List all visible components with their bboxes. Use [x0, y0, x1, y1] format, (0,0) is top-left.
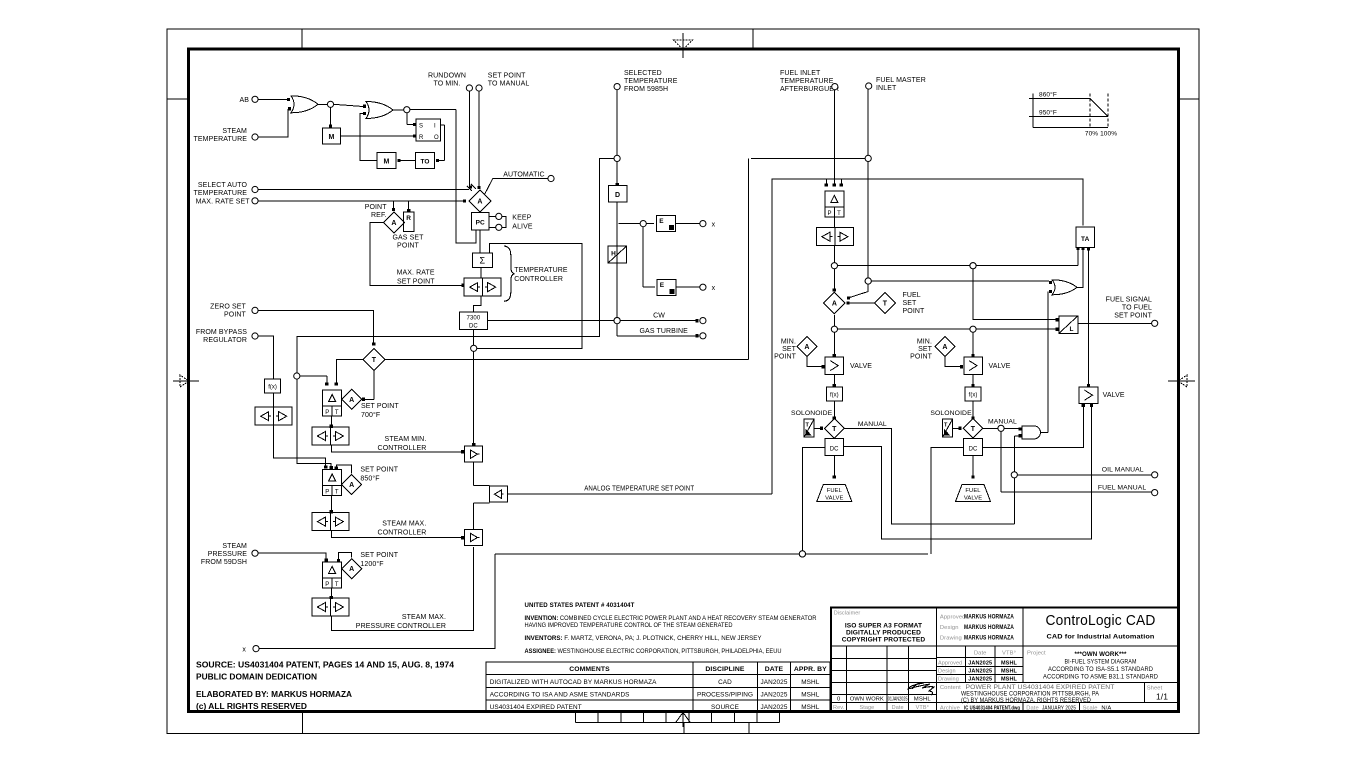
- svg-text:M: M: [384, 159, 390, 166]
- svg-text:MARKUS HORMAZA: MARKUS HORMAZA: [964, 636, 1014, 642]
- svg-text:Stage: Stage: [859, 705, 874, 711]
- svg-text:MSHL: MSHL: [801, 704, 820, 711]
- svg-text:JAN2025: JAN2025: [968, 661, 992, 667]
- svg-text:D: D: [615, 192, 620, 199]
- svg-text:SELECT AUTO: SELECT AUTO: [198, 182, 248, 189]
- svg-text:RUNDOWN: RUNDOWN: [428, 73, 466, 80]
- svg-text:SET: SET: [782, 346, 797, 353]
- svg-text:FUEL INLET: FUEL INLET: [780, 70, 821, 77]
- svg-text:R: R: [419, 135, 424, 141]
- svg-text:VALVE: VALVE: [989, 363, 1011, 370]
- svg-text:ELABORATED BY: MARKUS HORMAZA: ELABORATED BY: MARKUS HORMAZA: [196, 689, 352, 699]
- svg-text:ACCORDING TO ISA AND ASME STAN: ACCORDING TO ISA AND ASME STANDARDS: [490, 692, 630, 699]
- svg-text:TEMPERATURE: TEMPERATURE: [194, 136, 248, 143]
- svg-text:A: A: [942, 344, 947, 351]
- svg-text:Date: Date: [892, 705, 904, 711]
- svg-text:CONTROLLER: CONTROLLER: [514, 276, 563, 283]
- svg-text:POINT: POINT: [365, 204, 388, 211]
- svg-text:P: P: [325, 410, 329, 416]
- svg-text:POINT: POINT: [774, 354, 797, 361]
- svg-text:CW: CW: [653, 313, 665, 320]
- svg-text:Design: Design: [940, 625, 959, 631]
- svg-text:CAD: CAD: [718, 679, 732, 686]
- svg-text:Approved: Approved: [940, 615, 966, 621]
- svg-text:A: A: [832, 301, 837, 308]
- svg-text:TEMPERATURE: TEMPERATURE: [514, 267, 568, 274]
- svg-text:x: x: [712, 285, 716, 292]
- svg-text:ZERO SET: ZERO SET: [210, 304, 246, 311]
- svg-text:SOLONOIDE: SOLONOIDE: [930, 410, 972, 417]
- svg-text:SET: SET: [903, 300, 918, 307]
- svg-text:AUTOMATIC: AUTOMATIC: [503, 172, 544, 179]
- svg-text:VALVE: VALVE: [1103, 392, 1125, 399]
- svg-text:f(x): f(x): [969, 393, 978, 399]
- svg-text:MSHL: MSHL: [801, 692, 820, 699]
- svg-text:BI-FUEL SYSTEM DIAGRAM: BI-FUEL SYSTEM DIAGRAM: [1065, 659, 1137, 666]
- svg-text:FUEL: FUEL: [827, 488, 843, 494]
- svg-text:A: A: [349, 482, 354, 489]
- svg-text:SET POINT: SET POINT: [397, 279, 435, 286]
- svg-text:T: T: [372, 357, 377, 364]
- svg-text:IC US4031404 PATENT.dwg: IC US4031404 PATENT.dwg: [964, 706, 1020, 712]
- svg-text:DISCIPLINE: DISCIPLINE: [705, 666, 745, 673]
- svg-text:O: O: [434, 135, 439, 141]
- svg-text:REGULATOR: REGULATOR: [203, 337, 247, 344]
- svg-text:A: A: [349, 566, 354, 573]
- svg-text:GAS SET: GAS SET: [392, 235, 424, 242]
- svg-text:AB: AB: [239, 97, 249, 104]
- svg-text:Date: Date: [1026, 706, 1039, 712]
- svg-text:P: P: [827, 211, 831, 217]
- svg-text:H: H: [611, 251, 616, 258]
- svg-text:ISO SUPER A3 FORMAT: ISO SUPER A3 FORMAT: [845, 623, 922, 630]
- svg-text:STEAM MAX.: STEAM MAX.: [382, 521, 426, 528]
- svg-text:P: P: [325, 490, 329, 496]
- svg-text:DC: DC: [469, 324, 478, 330]
- svg-text:T: T: [805, 423, 809, 429]
- svg-text:CONTROLLER: CONTROLLER: [378, 445, 427, 452]
- svg-text:01JAN2025: 01JAN2025: [888, 697, 908, 703]
- svg-text:KEEP: KEEP: [512, 215, 531, 222]
- svg-text:JAN2025: JAN2025: [761, 692, 788, 699]
- svg-text:SOLONOIDE: SOLONOIDE: [791, 410, 833, 417]
- svg-text:GAS TURBINE: GAS TURBINE: [640, 328, 689, 335]
- svg-text:APPR. BY: APPR. BY: [794, 666, 827, 673]
- svg-text:ControLogic CAD: ControLogic CAD: [1046, 612, 1156, 629]
- svg-text:POINT: POINT: [397, 243, 420, 250]
- svg-text:1/1: 1/1: [1156, 692, 1168, 702]
- svg-text:FUEL MASTER: FUEL MASTER: [876, 77, 926, 84]
- svg-text:OWN WORK: OWN WORK: [850, 697, 884, 703]
- svg-text:(c) ALL RIGHTS RESERVED: (c) ALL RIGHTS RESERVED: [196, 701, 307, 711]
- svg-text:PC: PC: [476, 220, 485, 227]
- svg-text:UNITED STATES PATENT # 4031404: UNITED STATES PATENT # 4031404T: [525, 602, 635, 609]
- svg-text:TO: TO: [420, 159, 429, 166]
- svg-text:T: T: [971, 426, 976, 433]
- svg-text:JAN2025: JAN2025: [968, 669, 992, 675]
- svg-text:TEMPERATURE: TEMPERATURE: [624, 78, 678, 85]
- svg-text:MANUAL: MANUAL: [858, 421, 887, 428]
- svg-text:ACCORDING TO ASME B31.1 STAN: ACCORDING TO ASME B31.1 STANDARD: [1043, 674, 1158, 681]
- svg-text:TEMPERATURE: TEMPERATURE: [780, 78, 834, 85]
- svg-text:850°F: 850°F: [360, 475, 379, 483]
- svg-text:Archive: Archive: [940, 706, 960, 712]
- svg-text:ACCORDING TO ISA-S5.1 STANDARD: ACCORDING TO ISA-S5.1 STANDARD: [1048, 666, 1153, 673]
- svg-text:f(x): f(x): [268, 385, 277, 391]
- svg-text:FROM BYPASS: FROM BYPASS: [196, 329, 247, 336]
- svg-text:A: A: [391, 220, 396, 227]
- svg-text:JAN2025: JAN2025: [761, 679, 788, 686]
- svg-text:TA: TA: [1081, 236, 1090, 243]
- svg-text:(C) BY MARKUS HORMAZA, RIGHTS: (C) BY MARKUS HORMAZA, RIGHTS RESERVED: [961, 697, 1091, 704]
- svg-text:POINT: POINT: [224, 312, 247, 319]
- svg-text:Drawing: Drawing: [940, 636, 962, 642]
- svg-text:M: M: [329, 134, 335, 141]
- svg-text:REF.: REF.: [371, 212, 387, 219]
- svg-text:Σ: Σ: [479, 256, 485, 266]
- svg-text:VTB°: VTB°: [916, 705, 929, 711]
- svg-text:FUEL: FUEL: [903, 292, 921, 299]
- svg-text:T: T: [335, 410, 339, 416]
- svg-text:SET POINT: SET POINT: [361, 403, 399, 410]
- svg-text:1200°F: 1200°F: [360, 560, 383, 568]
- svg-text:DC: DC: [830, 447, 839, 453]
- svg-text:FROM 5985H: FROM 5985H: [624, 86, 668, 93]
- svg-text:CONTROLLER: CONTROLLER: [378, 530, 427, 537]
- svg-text:SET POINT: SET POINT: [1114, 313, 1152, 320]
- svg-text:SOURCE: US4031404 PATENT, PAGE: SOURCE: US4031404 PATENT, PAGES 14 AND 1…: [196, 660, 454, 670]
- svg-text:TO MIN.: TO MIN.: [433, 81, 460, 88]
- svg-text:VALVE: VALVE: [825, 496, 843, 502]
- svg-text:L: L: [1069, 326, 1073, 333]
- svg-text:Approved: Approved: [938, 661, 962, 667]
- svg-text:MIN.: MIN.: [781, 339, 796, 346]
- svg-text:VALVE: VALVE: [850, 363, 872, 370]
- svg-text:VTB°: VTB°: [1002, 651, 1016, 657]
- svg-text:ASSIGNEE: WESTINGHOUSE ELECTRI: ASSIGNEE: WESTINGHOUSE ELECTRIC CORPORAT…: [525, 648, 782, 655]
- svg-text:T: T: [883, 301, 888, 308]
- svg-text:SET POINT: SET POINT: [360, 467, 398, 474]
- svg-text:T: T: [944, 423, 948, 429]
- svg-text:SET: SET: [918, 346, 933, 353]
- svg-text:700°F: 700°F: [361, 411, 380, 419]
- svg-text:A: A: [804, 344, 809, 351]
- svg-text:OIL MANUAL: OIL MANUAL: [1102, 467, 1144, 474]
- svg-text:MARKUS HORMAZA: MARKUS HORMAZA: [964, 625, 1014, 631]
- svg-text:HAVING IMPROVED TEMPERATURE CO: HAVING IMPROVED TEMPERATURE CONTROL OF T…: [525, 622, 733, 629]
- svg-text:950°F: 950°F: [1039, 109, 1057, 117]
- svg-text:Content: Content: [940, 685, 961, 691]
- svg-text:FUEL MANUAL: FUEL MANUAL: [1098, 485, 1147, 492]
- svg-text:R: R: [406, 215, 411, 222]
- svg-text:E: E: [660, 282, 665, 289]
- svg-text:TO FUEL: TO FUEL: [1122, 305, 1152, 312]
- svg-text:COPYRIGHT PROTECTED: COPYRIGHT PROTECTED: [842, 637, 926, 644]
- svg-text:DC: DC: [969, 447, 978, 453]
- svg-text:POINT: POINT: [903, 308, 926, 315]
- svg-text:7300: 7300: [467, 316, 481, 322]
- svg-text:Scale: Scale: [1083, 706, 1098, 712]
- svg-text:0: 0: [837, 697, 840, 703]
- svg-text:I: I: [434, 124, 436, 130]
- svg-text:Drawing: Drawing: [938, 677, 959, 683]
- svg-text:FROM 59DSH: FROM 59DSH: [201, 559, 247, 566]
- svg-text:STEAM: STEAM: [222, 543, 247, 550]
- svg-text:INVENTION: COMBINED CYCLE ELEC: INVENTION: COMBINED CYCLE ELECTRIC POWER…: [525, 615, 817, 622]
- svg-text:FUEL: FUEL: [965, 488, 981, 494]
- svg-text:Date: Date: [974, 651, 987, 657]
- svg-text:E: E: [659, 218, 664, 225]
- svg-text:US4031404 EXPIRED PATENT: US4031404 EXPIRED PATENT: [490, 704, 582, 711]
- svg-text:T: T: [335, 582, 339, 588]
- svg-text:TEMPERATURE: TEMPERATURE: [194, 190, 248, 197]
- svg-text:CAD for Industrial Automation: CAD for Industrial Automation: [1047, 634, 1155, 641]
- svg-text:POINT: POINT: [910, 354, 933, 361]
- svg-text:INVENTORS: F. MARTZ, VERONA,: INVENTORS: F. MARTZ, VERONA, PA; J. PLOT…: [525, 635, 763, 642]
- svg-text:MAX. RATE: MAX. RATE: [397, 270, 435, 277]
- svg-text:DATE: DATE: [765, 666, 784, 673]
- svg-text:PRESSURE CONTROLLER: PRESSURE CONTROLLER: [356, 623, 446, 630]
- svg-text:T: T: [335, 490, 339, 496]
- svg-text:ANALOG TEMPERATURE SET POINT: ANALOG TEMPERATURE SET POINT: [584, 486, 695, 493]
- svg-text:A: A: [349, 397, 354, 404]
- svg-text:S: S: [419, 124, 423, 130]
- svg-text:MARKUS HORMAZA: MARKUS HORMAZA: [964, 615, 1014, 621]
- svg-text:JANUARY 2025: JANUARY 2025: [1042, 706, 1076, 712]
- svg-text:STEAM MAX.: STEAM MAX.: [402, 614, 446, 621]
- svg-text:FUEL SIGNAL: FUEL SIGNAL: [1106, 297, 1152, 304]
- svg-text:Project: Project: [1027, 651, 1046, 657]
- svg-text:70% 100%: 70% 100%: [1085, 131, 1117, 138]
- svg-text:STEAM: STEAM: [222, 128, 247, 135]
- svg-text:MSHL: MSHL: [1001, 677, 1018, 683]
- svg-text:f(x): f(x): [830, 393, 839, 399]
- svg-text:DIGITALIZED WITH AUTOCAD BY MA: DIGITALIZED WITH AUTOCAD BY MARKUS HORMA…: [490, 679, 657, 686]
- svg-text:VALVE: VALVE: [964, 496, 982, 502]
- svg-text:x: x: [242, 647, 246, 654]
- svg-text:JAN2025: JAN2025: [968, 677, 992, 683]
- svg-text:MSHL: MSHL: [1001, 669, 1018, 675]
- svg-text:PRESSURE: PRESSURE: [208, 551, 248, 558]
- svg-text:DIGITALLY PRODUCED: DIGITALLY PRODUCED: [846, 630, 921, 637]
- svg-text:SOURCE: SOURCE: [711, 704, 739, 711]
- svg-text:Rev.: Rev.: [833, 705, 845, 711]
- svg-text:PROCESS/PIPING: PROCESS/PIPING: [697, 692, 753, 699]
- svg-text:x: x: [712, 222, 716, 229]
- svg-text:N/A: N/A: [1101, 706, 1111, 712]
- svg-text:INLET: INLET: [876, 85, 897, 92]
- svg-text:COMMENTS: COMMENTS: [569, 666, 610, 673]
- svg-text:MAX. RATE SET: MAX. RATE SET: [196, 199, 251, 206]
- svg-text:MIN.: MIN.: [917, 339, 932, 346]
- svg-text:AFTERBURGUER: AFTERBURGUER: [780, 86, 839, 93]
- svg-text:MSHL: MSHL: [914, 697, 931, 703]
- svg-text:TO MANUAL: TO MANUAL: [488, 81, 530, 88]
- svg-text:Disclaimer: Disclaimer: [834, 611, 861, 617]
- svg-text:JAN2025: JAN2025: [761, 704, 788, 711]
- svg-text:Design: Design: [938, 669, 956, 675]
- svg-text:STEAM MIN.: STEAM MIN.: [385, 436, 427, 443]
- svg-text:***OWN WORK***: ***OWN WORK***: [1075, 651, 1127, 658]
- svg-text:SET POINT: SET POINT: [488, 73, 526, 80]
- svg-text:P: P: [325, 582, 329, 588]
- svg-text:ALIVE: ALIVE: [512, 224, 533, 231]
- svg-text:T: T: [837, 211, 841, 217]
- svg-text:SELECTED: SELECTED: [624, 70, 662, 77]
- svg-text:MSHL: MSHL: [801, 679, 820, 686]
- svg-text:A: A: [477, 199, 482, 206]
- svg-text:SET POINT: SET POINT: [360, 552, 398, 559]
- svg-text:T: T: [832, 426, 837, 433]
- svg-text:MANUAL: MANUAL: [988, 419, 1017, 426]
- svg-text:860°F: 860°F: [1039, 91, 1057, 99]
- svg-text:PUBLIC DOMAIN DEDICATION: PUBLIC DOMAIN DEDICATION: [196, 672, 317, 682]
- svg-text:MSHL: MSHL: [1001, 661, 1018, 667]
